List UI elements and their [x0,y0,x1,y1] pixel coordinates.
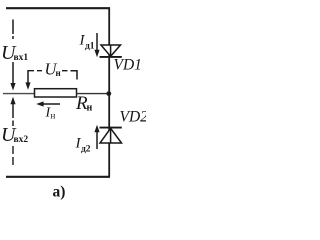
bracket Uн dashed [28,71,77,80]
wire bottom [6,176,110,178]
svg-text:VD1: VD1 [114,57,142,74]
node junction [106,91,111,96]
svg-text:д1: д1 [85,42,95,52]
svg-text:а): а) [53,184,66,201]
wire middle left [3,93,35,95]
label Rн [75,93,93,114]
arrow Uн [25,70,30,90]
diode VD2 [100,128,122,143]
arrow Uвх1 dashed [10,20,15,91]
svg-text:д2: д2 [81,145,91,155]
diode VD1 [100,45,122,57]
arrow Iд1 [94,33,99,57]
label Iн [45,106,56,121]
arrow Iд2 [94,125,99,149]
svg-text:н: н [87,103,93,114]
svg-text:вх2: вх2 [14,135,29,145]
svg-text:VD2: VD2 [120,109,147,126]
label Uвх2 [1,124,28,146]
wire Uвх2 lower dashed [12,146,14,166]
label Uвх1 [1,42,28,64]
wire right [108,8,110,177]
label Uн [45,60,61,79]
arrow Uвх2 [10,97,15,126]
resistor Rн [35,89,77,97]
wire top [6,7,110,9]
label Iд2 [75,136,91,155]
svg-text:н: н [56,68,61,78]
arrow Iн [36,101,60,106]
svg-text:н: н [51,111,56,121]
wire middle right [76,93,109,95]
label Iд1 [79,33,95,52]
svg-text:вх1: вх1 [14,53,29,63]
